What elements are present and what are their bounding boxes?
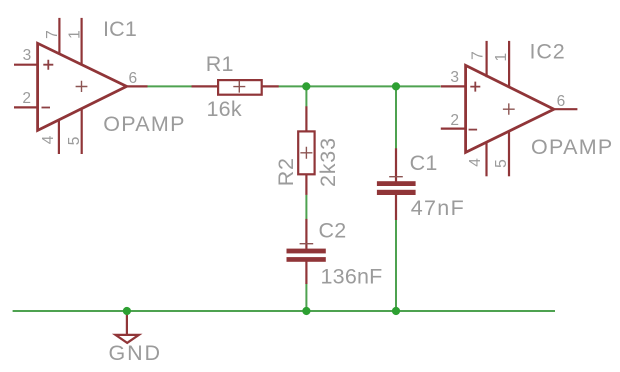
svg-text:2k33: 2k33 bbox=[316, 137, 340, 187]
svg-text:R2: R2 bbox=[274, 157, 298, 186]
svg-text:2: 2 bbox=[22, 90, 31, 107]
svg-text:IC1: IC1 bbox=[103, 17, 137, 41]
svg-text:3: 3 bbox=[23, 47, 32, 64]
svg-text:7: 7 bbox=[44, 30, 61, 39]
svg-text:R1: R1 bbox=[206, 52, 234, 76]
svg-text:4: 4 bbox=[40, 135, 57, 144]
svg-text:5: 5 bbox=[493, 159, 510, 168]
svg-text:4: 4 bbox=[467, 158, 484, 167]
svg-text:IC2: IC2 bbox=[530, 39, 566, 63]
svg-text:136nF: 136nF bbox=[321, 265, 383, 289]
svg-text:OPAMP: OPAMP bbox=[103, 112, 186, 136]
svg-text:1: 1 bbox=[493, 53, 510, 62]
svg-text:C1: C1 bbox=[410, 151, 438, 175]
svg-text:16k: 16k bbox=[207, 97, 242, 121]
svg-text:1: 1 bbox=[66, 30, 83, 39]
svg-text:6: 6 bbox=[129, 70, 138, 87]
svg-text:7: 7 bbox=[469, 51, 486, 60]
svg-text:5: 5 bbox=[66, 137, 83, 146]
svg-text:OPAMP: OPAMP bbox=[531, 135, 614, 159]
svg-text:3: 3 bbox=[450, 69, 459, 86]
svg-text:47nF: 47nF bbox=[411, 196, 465, 220]
svg-text:6: 6 bbox=[557, 93, 566, 110]
svg-text:GND: GND bbox=[109, 341, 162, 365]
svg-text:C2: C2 bbox=[319, 219, 347, 243]
svg-text:2: 2 bbox=[450, 112, 459, 129]
